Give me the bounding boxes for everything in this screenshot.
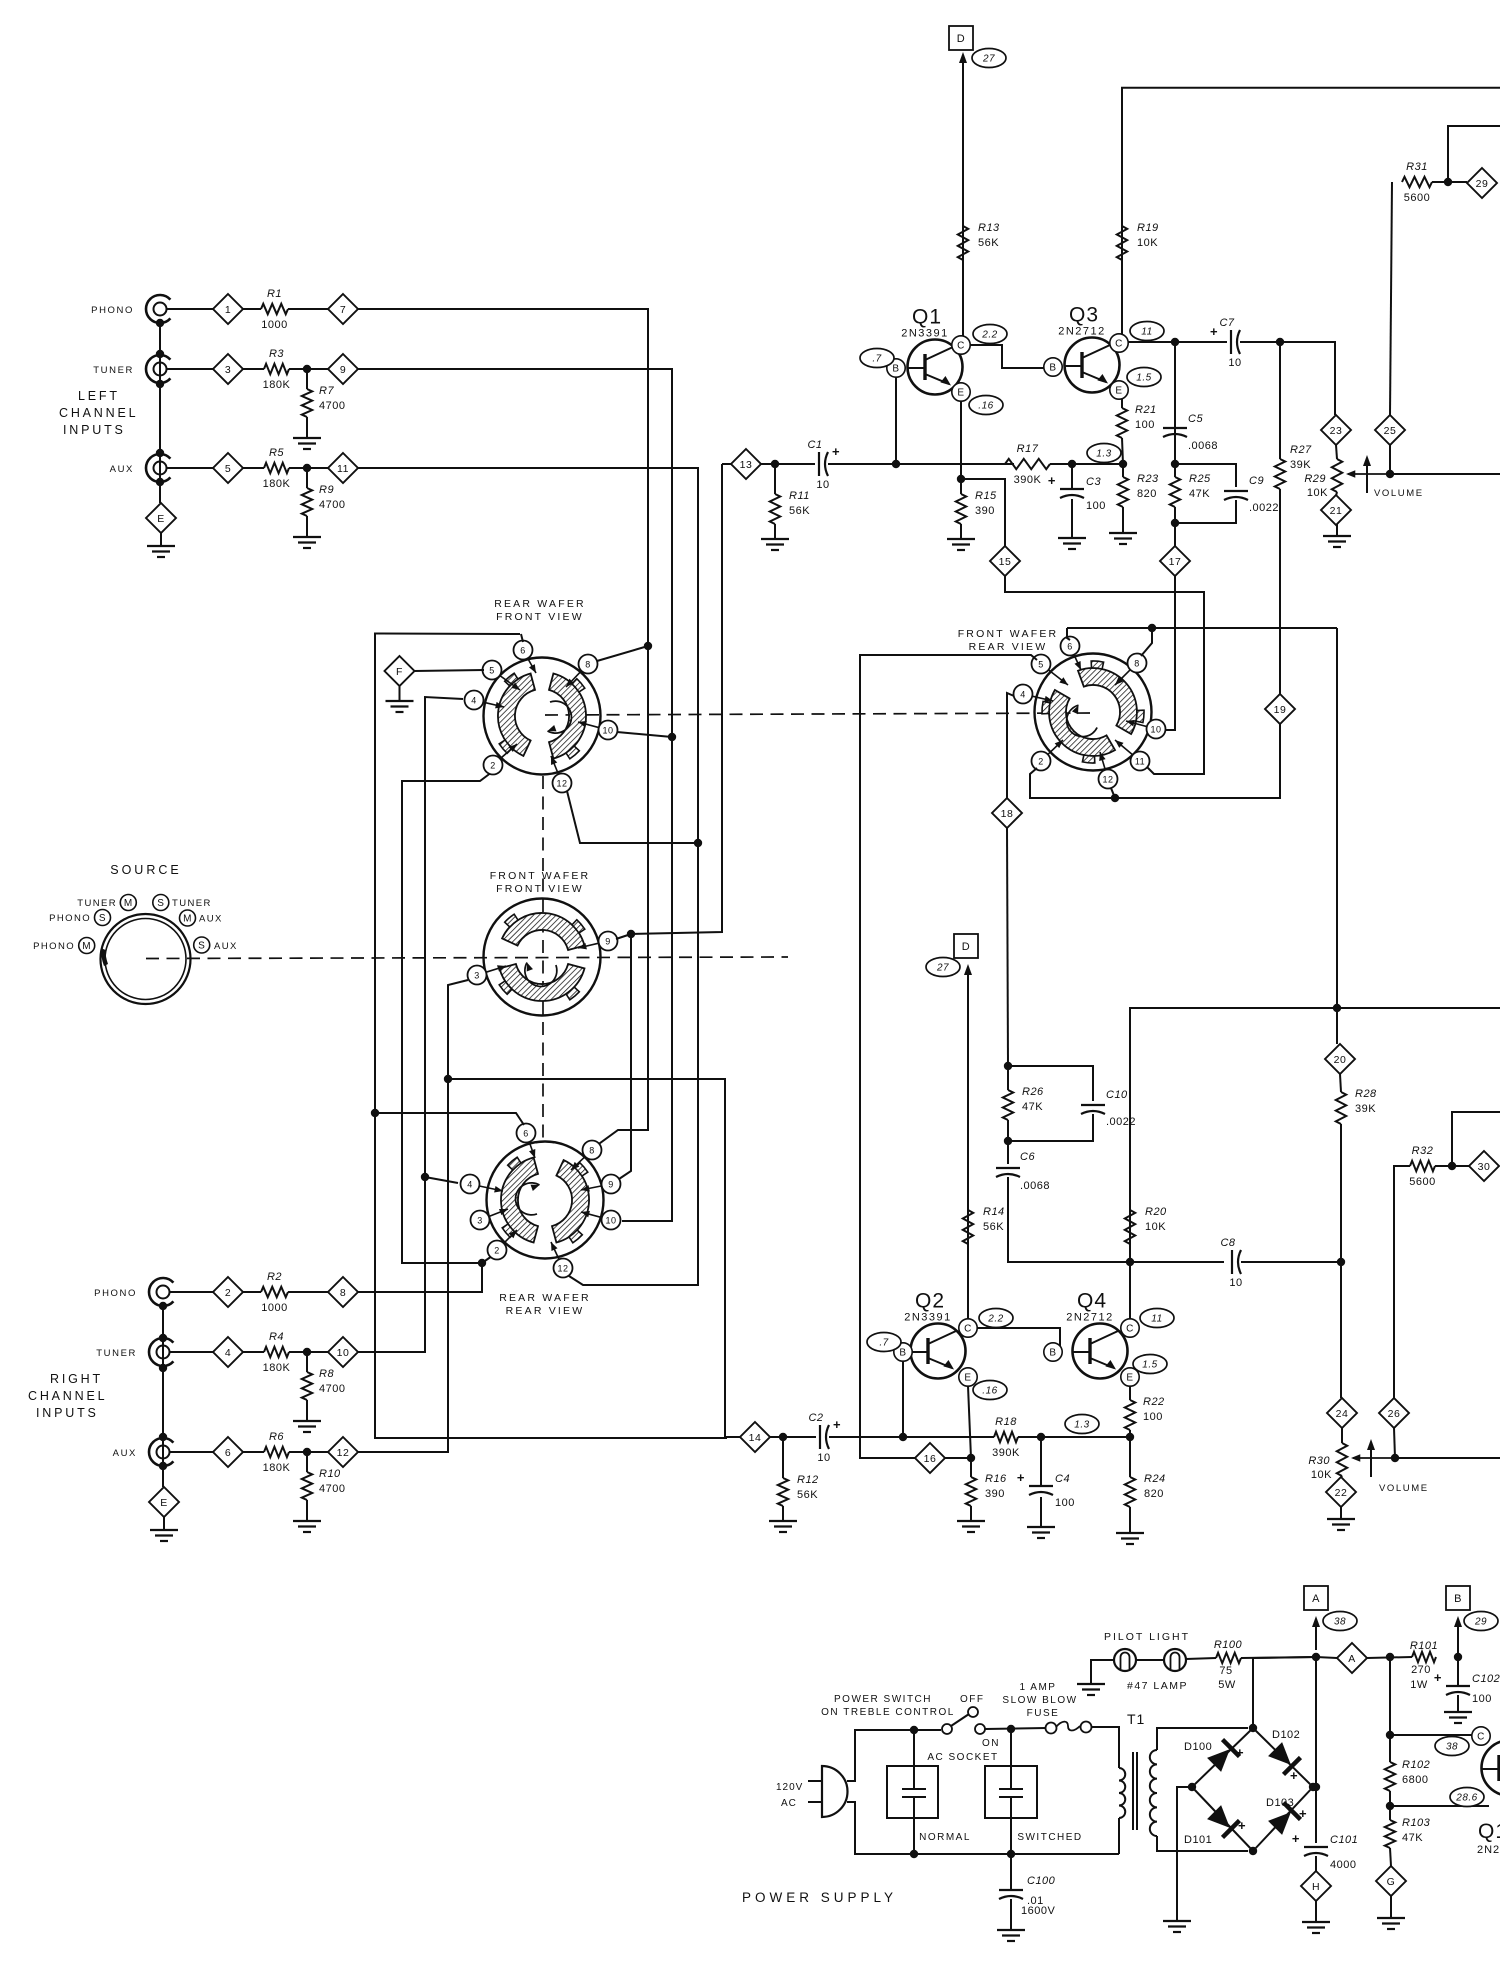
wafer3 pin 10	[581, 1211, 621, 1230]
svg-text:OFF: OFF	[960, 1694, 985, 1705]
wire node4 to R4	[243, 1351, 264, 1353]
svg-text:C2: C2	[808, 1412, 823, 1424]
diode D103	[1266, 1797, 1307, 1835]
svg-text:C1: C1	[807, 439, 822, 451]
wafer3 pin 9	[581, 1175, 621, 1194]
svg-text:19: 19	[1274, 704, 1287, 716]
wire pins9 wafer2-wafer3	[619, 934, 631, 1179]
svg-text:180K: 180K	[263, 1362, 291, 1374]
wire R17 to R21 node	[1050, 463, 1123, 465]
terminal B of Q3	[1044, 358, 1062, 376]
wire phono-R pin to node 2	[170, 1291, 213, 1293]
svg-text:R103: R103	[1402, 1817, 1431, 1829]
svg-text:30: 30	[1478, 1161, 1491, 1173]
wafer1 pin 10	[578, 721, 618, 740]
rotary switch rear wafer rear view	[487, 1142, 604, 1318]
resistor R8	[302, 1368, 346, 1400]
svg-text:R19: R19	[1137, 222, 1159, 234]
wire node16 long feed	[860, 655, 1037, 1458]
svg-text:E: E	[964, 1373, 971, 1384]
svg-text:820: 820	[1144, 1488, 1164, 1500]
node E left	[146, 503, 176, 533]
svg-text:R11: R11	[789, 490, 810, 502]
svg-text:E: E	[160, 1497, 168, 1509]
wire node26 to wiper junction	[1394, 1428, 1395, 1458]
capacitor C6	[996, 1151, 1050, 1192]
svg-text:15: 15	[999, 556, 1012, 568]
label AUX S position	[214, 941, 238, 952]
wire node16 to emitter junction	[944, 1457, 971, 1459]
svg-text:10: 10	[605, 1215, 616, 1225]
junction loop wafer3 pin6 tap	[371, 1109, 379, 1117]
resistor R25	[1170, 473, 1211, 507]
svg-text:2N2712: 2N2712	[1058, 326, 1106, 338]
wire node5 to R5	[243, 467, 264, 469]
svg-text:10: 10	[602, 725, 613, 735]
junction phono-R shield	[159, 1302, 167, 1310]
junction R26 C10 bottom	[1004, 1137, 1012, 1145]
svg-text:1.5: 1.5	[1136, 373, 1151, 384]
svg-text:CHANNEL: CHANNEL	[59, 406, 138, 420]
resistor R21	[1117, 404, 1157, 438]
wire R27 riser	[1279, 342, 1281, 459]
junction B+ rail C101	[1312, 1653, 1320, 1661]
wire C10 branch top	[1008, 1066, 1093, 1101]
svg-text:POWER SWITCH: POWER SWITCH	[834, 1694, 932, 1705]
jack PHONO left	[91, 295, 170, 323]
svg-text:RIGHT: RIGHT	[50, 1372, 103, 1386]
wafer1 pin 5	[483, 661, 521, 691]
svg-text:2: 2	[225, 1287, 231, 1299]
wire R26 to C6	[1007, 1120, 1009, 1164]
svg-text:+: +	[1238, 1818, 1246, 1833]
svg-text:390K: 390K	[1014, 474, 1042, 486]
resistor R12	[778, 1474, 819, 1506]
rotary switch rear wafer front view	[484, 598, 601, 775]
node 2	[213, 1277, 243, 1307]
wire C102 top	[1457, 1657, 1459, 1686]
svg-text:25: 25	[1384, 425, 1397, 437]
svg-text:+: +	[1292, 1831, 1300, 1846]
svg-text:C10: C10	[1106, 1089, 1128, 1101]
value 270	[1411, 1664, 1431, 1676]
node 3	[213, 354, 243, 384]
junction R11 top	[771, 460, 779, 468]
svg-text:C5: C5	[1188, 413, 1203, 425]
ground below R23	[1109, 507, 1137, 544]
svg-text:23: 23	[1330, 425, 1343, 437]
ground below R16	[957, 1506, 985, 1532]
junction emitter R15 node15	[957, 475, 965, 483]
svg-text:4700: 4700	[319, 499, 345, 511]
svg-text:10: 10	[816, 479, 829, 491]
terminal C of Q1	[952, 336, 970, 354]
wire R3 junction down to R7	[306, 369, 308, 389]
wire C101 to node H	[1315, 1856, 1317, 1871]
node 11	[328, 453, 358, 483]
wire R21 to node	[1122, 438, 1123, 464]
wire R1 to node 7	[288, 308, 328, 310]
resistor R4	[263, 1331, 291, 1374]
svg-text:27: 27	[936, 963, 949, 974]
AC socket SWITCHED	[985, 1766, 1083, 1843]
label 1 AMP	[1020, 1682, 1057, 1693]
resistor R24	[1125, 1473, 1166, 1507]
wire R31 left to node25 to wiper	[1390, 182, 1392, 415]
svg-text:C8: C8	[1220, 1237, 1235, 1249]
svg-text:1 AMP: 1 AMP	[1020, 1682, 1057, 1693]
source position TUNER-S	[153, 895, 169, 911]
wire tap to wafer1 pin12	[567, 791, 698, 843]
wafer4 pin 11	[1115, 740, 1150, 771]
wire secondary bottom to bridge	[1157, 1836, 1248, 1851]
resistor R102	[1385, 1759, 1430, 1791]
svg-text:M: M	[82, 941, 91, 952]
wire Q2 collector to Q4 base	[977, 1328, 1060, 1352]
resistor R28	[1336, 1088, 1377, 1124]
label #47 LAMP	[1127, 1680, 1188, 1692]
ground below node22	[1327, 1506, 1355, 1530]
svg-text:+: +	[1210, 324, 1218, 339]
svg-text:29: 29	[1474, 1617, 1487, 1628]
wire R22 to node	[1129, 1430, 1131, 1437]
svg-text:G: G	[1387, 1876, 1396, 1888]
svg-text:R15: R15	[975, 490, 997, 502]
label ON TREBLE CONTROL	[821, 1707, 955, 1718]
svg-text:R7: R7	[319, 385, 334, 397]
pilot lamp 1	[1114, 1649, 1136, 1671]
junction bridge left	[1188, 1783, 1196, 1791]
label TUNER S position	[172, 898, 212, 909]
junction bridge right	[1309, 1783, 1317, 1791]
svg-text:1000: 1000	[261, 319, 287, 331]
label 120V	[776, 1782, 803, 1793]
wire Q1 collector up	[962, 60, 964, 336]
svg-text:REAR VIEW: REAR VIEW	[506, 1305, 585, 1317]
wire aux-R bus to switch	[358, 980, 468, 1452]
svg-text:+: +	[1017, 1470, 1025, 1485]
wire phono-L pin to node 1	[167, 308, 213, 310]
svg-text:56K: 56K	[797, 1489, 818, 1501]
wire Q101 emitter line	[1390, 1805, 1489, 1807]
source position PHONO-S	[95, 910, 111, 926]
svg-text:Q2: Q2	[915, 1290, 945, 1313]
wire node6 to R6	[243, 1451, 264, 1453]
svg-text:38: 38	[1446, 1742, 1458, 1753]
power switch on treble control	[942, 1707, 985, 1734]
svg-text:TUNER: TUNER	[93, 365, 134, 376]
junction shield bus a	[156, 350, 164, 358]
wire junction to R103	[1389, 1806, 1391, 1820]
terminal E of Q3	[1110, 381, 1128, 399]
wire node14 to C2	[770, 1436, 816, 1438]
svg-text:9: 9	[340, 364, 346, 376]
svg-text:R1: R1	[267, 288, 282, 300]
voltage 2.2 at Q2 collector	[979, 1309, 1013, 1328]
svg-text:AUX: AUX	[113, 1448, 137, 1459]
junction C8 R28 chain	[1337, 1258, 1345, 1266]
svg-text:C: C	[964, 1324, 972, 1335]
wire C3 top	[1071, 464, 1073, 489]
svg-text:R102: R102	[1402, 1759, 1430, 1771]
svg-text:C100: C100	[1027, 1875, 1056, 1887]
svg-text:D: D	[957, 33, 965, 45]
svg-text:6: 6	[225, 1447, 231, 1459]
resistor R5	[263, 447, 291, 490]
label INPUTS right	[36, 1406, 99, 1420]
value 1600V	[1021, 1905, 1055, 1917]
svg-text:8: 8	[340, 1287, 346, 1299]
svg-text:PHONO: PHONO	[94, 1288, 137, 1299]
wire bridge top to R100 node	[1253, 1657, 1316, 1728]
transistor Q4 2N2712	[1066, 1290, 1127, 1379]
junction phono-R net	[478, 1259, 486, 1267]
node 30	[1469, 1151, 1499, 1181]
wire lamp1 to lamp2	[1136, 1659, 1164, 1661]
resistor R9	[302, 484, 346, 516]
voltage 38 at Q101 collector	[1435, 1737, 1469, 1756]
wire node24 to pot	[1341, 1428, 1343, 1443]
svg-text:C: C	[957, 341, 965, 352]
svg-text:A: A	[1312, 1593, 1320, 1605]
junction R32 node30	[1448, 1162, 1456, 1170]
svg-text:R2: R2	[267, 1271, 282, 1283]
wire C4 top	[1040, 1437, 1042, 1486]
capacitor C4	[1017, 1470, 1075, 1509]
wire junction to R26	[1007, 1066, 1009, 1090]
wire wafer4 pin6 up	[1067, 628, 1070, 640]
junction R101 R102 chain	[1386, 1653, 1394, 1661]
resistor R3	[263, 348, 291, 391]
svg-text:B: B	[899, 1348, 906, 1359]
wafer4 pin 8	[1115, 654, 1147, 686]
svg-text:820: 820	[1137, 488, 1157, 500]
svg-text:C: C	[1115, 339, 1123, 350]
node 24	[1327, 1398, 1357, 1428]
capacitor C7	[1210, 317, 1242, 369]
junction R28 supply tap	[1333, 1004, 1341, 1012]
svg-text:2: 2	[494, 1245, 500, 1255]
svg-text:.0068: .0068	[1188, 440, 1218, 452]
svg-text:26: 26	[1388, 1408, 1401, 1420]
wire tap to wafer1 pin10	[617, 732, 672, 737]
svg-text:M: M	[183, 914, 192, 925]
wire tap to wafer3 pin6	[375, 1113, 524, 1125]
wire shield bus to node E right	[162, 1466, 164, 1487]
label RIGHT	[50, 1372, 103, 1386]
voltage 2.2 at Q1 collector	[973, 325, 1007, 344]
resistor R19	[1117, 222, 1159, 260]
junction C5 R25	[1171, 460, 1179, 468]
label PHONO M position	[33, 941, 75, 952]
node 29	[1467, 168, 1497, 198]
transistor Q3 2N2712	[1058, 304, 1119, 393]
resistor R15	[956, 490, 997, 524]
wire C7 to corner	[1240, 342, 1335, 415]
junction tuner-R shield	[159, 1364, 167, 1372]
ground below C4	[1027, 1497, 1055, 1538]
wire node20 to R28	[1340, 1074, 1341, 1092]
svg-text:C7: C7	[1219, 317, 1234, 329]
svg-text:+: +	[833, 1417, 841, 1432]
svg-text:11: 11	[1135, 756, 1145, 766]
svg-text:R6: R6	[269, 1431, 284, 1443]
wire C100 top	[1010, 1854, 1012, 1890]
svg-text:5: 5	[1038, 659, 1044, 669]
wire net13 vertical	[631, 464, 722, 934]
svg-text:18: 18	[1001, 808, 1014, 820]
ground left inputs	[147, 533, 175, 557]
svg-text:4: 4	[225, 1347, 231, 1359]
svg-text:29: 29	[1476, 178, 1489, 190]
svg-text:M: M	[124, 898, 133, 909]
wire Q2 collector up	[967, 975, 969, 1319]
wire R4 to node 10	[289, 1351, 328, 1353]
resistor R7	[302, 385, 346, 417]
wafer4 pin 4	[1014, 685, 1054, 704]
svg-text:Q1: Q1	[1478, 1820, 1500, 1843]
svg-text:B: B	[1454, 1593, 1462, 1605]
svg-text:R25: R25	[1189, 473, 1211, 485]
terminal E of Q4	[1121, 1368, 1139, 1386]
svg-text:24: 24	[1336, 1408, 1349, 1420]
wire R25 to junction	[1174, 507, 1176, 523]
svg-text:14: 14	[749, 1432, 762, 1444]
wire R32 to node30	[1435, 1165, 1469, 1167]
node 13	[731, 449, 761, 479]
svg-text:AUX: AUX	[214, 941, 238, 952]
svg-text:4700: 4700	[319, 400, 345, 412]
resistor R22	[1125, 1396, 1165, 1430]
junction Q101 collector line	[1386, 1731, 1394, 1739]
node 20	[1325, 1044, 1355, 1074]
svg-text:C6: C6	[1020, 1151, 1035, 1163]
wire node2 to R2	[243, 1291, 261, 1293]
svg-text:ON: ON	[982, 1738, 1000, 1749]
svg-text:12: 12	[557, 1263, 568, 1273]
svg-text:AUX: AUX	[199, 914, 223, 925]
label AC SOCKET	[927, 1752, 998, 1763]
wire shield bus to node E	[159, 482, 161, 503]
svg-text:VOLUME: VOLUME	[1374, 488, 1424, 499]
ground below R11	[761, 524, 789, 550]
ground below C102	[1444, 1695, 1472, 1723]
capacitor C9	[1224, 475, 1279, 514]
junction R22 R24	[1126, 1433, 1134, 1441]
node 10	[328, 1337, 358, 1367]
wafer4 pin 10	[1126, 720, 1166, 739]
junction tuner-L wafer1 tap	[668, 733, 676, 741]
wire Q3 collector up	[1122, 88, 1500, 334]
node 8	[328, 1277, 358, 1307]
svg-text:+: +	[1236, 1745, 1244, 1760]
wire node A left	[1316, 1657, 1337, 1658]
wire secondary top to bridge	[1157, 1728, 1248, 1750]
junction R4 R8	[303, 1348, 311, 1356]
svg-text:E: E	[1126, 1373, 1133, 1384]
resistor R16	[966, 1473, 1007, 1506]
label INPUTS	[63, 423, 126, 437]
svg-text:R24: R24	[1144, 1473, 1166, 1485]
svg-text:E: E	[957, 388, 964, 399]
svg-text:390K: 390K	[992, 1447, 1020, 1459]
junction R6 R10	[303, 1448, 311, 1456]
wafer3 pin 4	[461, 1175, 504, 1194]
wire C8 to R28 chain	[1241, 1261, 1341, 1263]
dashed shaft line wafer1 to wafer4	[545, 713, 1090, 715]
node number 27 mid	[926, 958, 960, 977]
wire R28 down	[1340, 1124, 1342, 1398]
svg-text:12: 12	[337, 1447, 350, 1459]
junction shield bus c	[159, 1334, 167, 1342]
wafer1 pin 6	[514, 641, 537, 674]
svg-text:R10: R10	[319, 1468, 341, 1480]
label LEFT	[78, 389, 120, 403]
arrow into B flag	[1454, 1616, 1462, 1655]
node 1	[213, 294, 243, 324]
wire node3 to R3	[243, 368, 264, 370]
junction net13 wafer pins9	[627, 930, 635, 938]
svg-text:5600: 5600	[1404, 192, 1430, 204]
wire C9 top branch	[1175, 464, 1236, 487]
svg-text:SWITCHED: SWITCHED	[1017, 1832, 1082, 1843]
svg-text:17: 17	[1169, 556, 1182, 568]
wire pot to node22	[1341, 1476, 1342, 1478]
wire tuner-R pin to node 4	[170, 1351, 213, 1353]
resistor R1	[261, 288, 288, 331]
svg-text:R18: R18	[995, 1416, 1017, 1428]
svg-text:R5: R5	[269, 447, 284, 459]
svg-text:47K: 47K	[1022, 1101, 1043, 1113]
junction volume wiper left	[1386, 470, 1394, 478]
svg-text:100: 100	[1135, 419, 1155, 431]
svg-text:1.3: 1.3	[1096, 449, 1111, 460]
voltage 1.5 at Q4 emitter	[1133, 1355, 1167, 1374]
junction aux-R net14 tap	[444, 1075, 452, 1083]
junction R3 R7	[303, 365, 311, 373]
node 22	[1326, 1477, 1356, 1507]
label R100	[1214, 1639, 1243, 1651]
wire node F to wafer1 pin5	[414, 670, 484, 671]
svg-text:B: B	[1049, 363, 1056, 374]
svg-text:47K: 47K	[1189, 488, 1210, 500]
svg-text:F: F	[396, 666, 403, 678]
svg-text:R101: R101	[1410, 1640, 1438, 1652]
wire node19 to wafer4 rotor line	[1030, 724, 1280, 798]
terminal C of Q3	[1110, 334, 1128, 352]
wire fuse to transformer	[1091, 1727, 1119, 1768]
ground below R12	[769, 1506, 797, 1532]
node 6	[213, 1437, 243, 1467]
svg-text:5: 5	[489, 665, 495, 675]
svg-text:R17: R17	[1017, 443, 1039, 455]
svg-text:R26: R26	[1022, 1086, 1044, 1098]
node G	[1376, 1866, 1406, 1896]
ground below C100	[997, 1899, 1025, 1941]
transistor Q1 2N3391	[901, 306, 962, 395]
node 14	[740, 1422, 770, 1452]
svg-text:9: 9	[605, 936, 611, 946]
node 4	[213, 1337, 243, 1367]
node number 38 at A	[1323, 1612, 1357, 1631]
junction pin8 tap	[1148, 624, 1156, 632]
svg-text:270: 270	[1411, 1664, 1431, 1676]
svg-text:2N2712: 2N2712	[1066, 1312, 1114, 1324]
node number 11 at Q4 collector	[1140, 1309, 1174, 1328]
junction normal socket top	[910, 1726, 918, 1734]
svg-text:H: H	[1312, 1881, 1320, 1893]
node 9	[328, 354, 358, 384]
